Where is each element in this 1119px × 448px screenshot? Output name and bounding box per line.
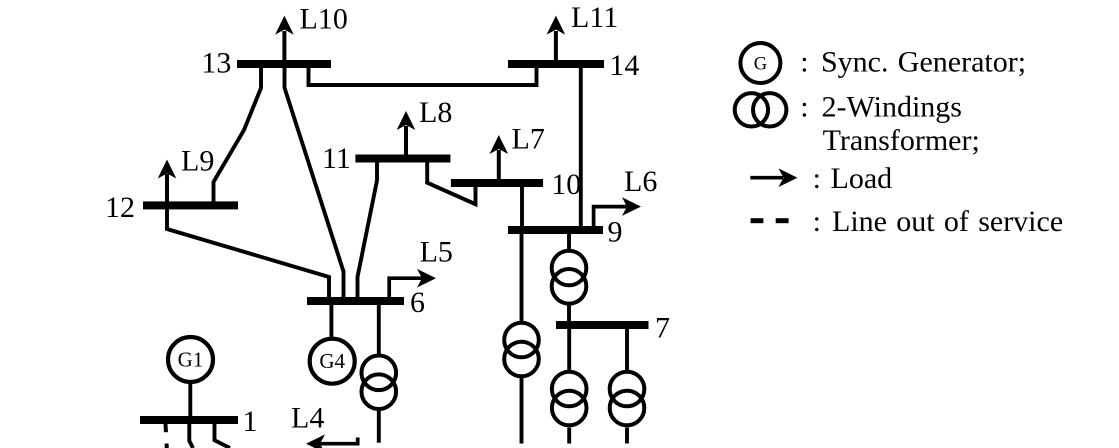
wire line 14-9 (579, 66, 583, 226)
transformer below bus7 right (610, 372, 645, 426)
load L6 (594, 165, 658, 228)
bus 11 (355, 155, 450, 163)
bus 1 (140, 416, 238, 424)
svg-text:Sync. Generator;: Sync. Generator; (821, 45, 1026, 78)
svg-text:L8: L8 (419, 96, 452, 129)
wire T97 to bus7 (567, 305, 571, 322)
svg-text:1: 1 (243, 405, 258, 438)
svg-text:G: G (754, 55, 767, 75)
wire below T7right (625, 428, 629, 444)
wire line 12-6 (167, 209, 329, 298)
legend transformer symbol (735, 93, 787, 126)
load L4 (291, 402, 358, 448)
load L8 (397, 96, 453, 156)
wire below left transformer (520, 378, 524, 444)
bus 6 (307, 297, 404, 305)
wire bus7 to T7mid (567, 328, 571, 371)
load L9 (158, 145, 215, 204)
wire bus7 to T7right (625, 328, 629, 371)
wire below T56 (377, 410, 381, 443)
svg-text:Load: Load (831, 162, 893, 195)
wire bus6 to T56 (377, 304, 381, 354)
svg-text:11: 11 (322, 142, 351, 175)
svg-text::: : (813, 205, 821, 238)
transformer below bus7 middle (552, 372, 587, 426)
wire line 11-10 (427, 162, 475, 204)
wire below bus1 line A (189, 423, 193, 448)
svg-text:L9: L9 (181, 145, 214, 178)
load L7 (490, 123, 545, 182)
svg-text:10: 10 (551, 168, 581, 201)
bus 10 (451, 179, 543, 187)
wire below T7mid (567, 428, 571, 444)
bus 7 (556, 321, 649, 329)
generator G4 (310, 339, 355, 384)
svg-text:Transformer;: Transformer; (823, 124, 980, 157)
svg-text:6: 6 (410, 286, 425, 319)
svg-text:L10: L10 (300, 2, 348, 35)
wire bus9 to T97 (567, 233, 571, 250)
wire line 13-6 (285, 66, 344, 298)
wire G1 stem (188, 384, 192, 418)
wire G4 stem (329, 304, 333, 337)
transformer below bus9 left chain (504, 323, 539, 377)
load L5 (389, 236, 453, 299)
svg-text:12: 12 (105, 191, 135, 224)
svg-text::: : (800, 91, 808, 124)
transformer T5-6 below bus6 (362, 356, 397, 410)
line out of service 1-2 (dashed) (166, 424, 167, 448)
bus 14 (508, 60, 604, 68)
svg-text:L4: L4 (291, 402, 324, 435)
svg-text:G1: G1 (178, 348, 204, 372)
bus 9 (508, 226, 603, 234)
svg-text:L11: L11 (571, 1, 618, 34)
svg-text:7: 7 (655, 312, 670, 345)
svg-text:9: 9 (608, 216, 623, 249)
wire line 10-9 (520, 187, 524, 227)
wire line 11-6 (358, 162, 378, 298)
bus 13 (237, 60, 331, 68)
legend load arrow (750, 168, 797, 187)
legend generator symbol (740, 43, 780, 83)
legend dashed symbol (751, 218, 764, 223)
load L10 (275, 2, 348, 62)
wire line 13-14 (309, 66, 537, 85)
svg-text:13: 13 (201, 47, 231, 80)
bus 12 (143, 201, 238, 209)
svg-text:L5: L5 (420, 236, 453, 269)
svg-text:Line out of service: Line out of service (832, 205, 1063, 238)
wire bus9 to transformer below (520, 233, 524, 322)
load L11 (547, 1, 619, 62)
svg-text:2-Windings: 2-Windings (822, 91, 962, 124)
generator G1 (168, 337, 213, 382)
svg-text:L6: L6 (624, 165, 657, 198)
svg-text::: : (813, 162, 821, 195)
svg-text:G4: G4 (319, 349, 345, 373)
svg-text:L7: L7 (512, 123, 545, 156)
transformer T9-7 (552, 251, 587, 304)
wire line 13-12 (214, 66, 262, 203)
svg-text::: : (800, 45, 808, 78)
svg-text:14: 14 (609, 49, 639, 82)
wire below bus1 line B (215, 423, 230, 448)
